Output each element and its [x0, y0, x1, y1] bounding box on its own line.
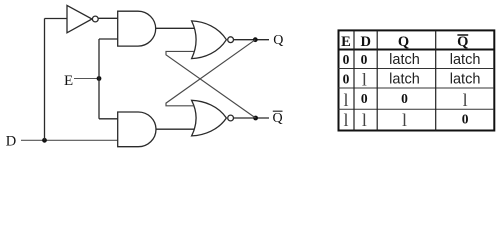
svg-text:latch: latch — [450, 72, 481, 88]
nor-gate U4 top — [192, 21, 227, 59]
node E junction — [97, 76, 102, 81]
wire inverter to AND1 — [98, 17, 118, 19]
svg-text:Q: Q — [273, 111, 283, 126]
wire feedback Qbar to NOR1 input — [166, 51, 256, 118]
wire AND1 output to NOR1 — [156, 27, 195, 29]
svg-text:latch: latch — [389, 72, 420, 88]
wire D vertical — [44, 19, 46, 141]
table grid — [338, 30, 495, 130]
svg-text:E: E — [64, 73, 73, 89]
svg-text:D: D — [361, 34, 371, 50]
wire E to AND2 upper input — [99, 118, 118, 120]
svg-text:latch: latch — [450, 52, 481, 68]
svg-text:D: D — [6, 134, 16, 150]
node Qbar junction — [253, 116, 258, 121]
svg-text:0: 0 — [462, 112, 469, 127]
svg-text:Q: Q — [398, 34, 409, 50]
svg-text:E: E — [341, 34, 351, 50]
nor-gate U5 bottom — [192, 100, 227, 136]
svg-text:l: l — [463, 90, 468, 110]
svg-text:0: 0 — [361, 91, 368, 106]
and-gate U2 top — [118, 11, 156, 46]
node D junction — [42, 138, 47, 143]
svg-text:0: 0 — [343, 71, 350, 86]
nor-gate U5 bubble — [228, 115, 234, 121]
inverter U1 — [67, 5, 92, 32]
and-gate U3 bottom — [118, 112, 156, 147]
svg-text:l: l — [343, 110, 348, 130]
svg-text:l: l — [362, 70, 367, 90]
wire AND2 output to NOR2 — [156, 128, 195, 130]
svg-text:latch: latch — [389, 52, 420, 68]
wire to inverter input — [45, 18, 68, 20]
truth table — [338, 30, 495, 130]
svg-text:0: 0 — [343, 52, 350, 67]
wire NOR1 output — [234, 39, 270, 41]
row 1: 0 0 latch latch — [343, 52, 368, 67]
wire feedback Q to NOR2 input — [166, 40, 255, 106]
inverter bubble — [92, 16, 98, 22]
wire E to AND1 lower input — [99, 38, 118, 40]
nor-gate U4 bubble — [228, 37, 234, 43]
wire E horizontal — [74, 78, 99, 80]
wire D horizontal — [21, 139, 118, 141]
svg-text:Q: Q — [457, 34, 468, 50]
svg-text:0: 0 — [361, 52, 368, 67]
svg-text:0: 0 — [401, 91, 408, 106]
svg-text:l: l — [362, 110, 367, 130]
wire NOR2 output — [234, 117, 270, 119]
svg-text:Q: Q — [273, 33, 283, 48]
svg-text:l: l — [402, 110, 407, 130]
node Q junction — [253, 37, 258, 42]
Qbar overline — [273, 110, 283, 112]
wire E vertical — [98, 39, 100, 119]
svg-text:l: l — [343, 90, 348, 110]
